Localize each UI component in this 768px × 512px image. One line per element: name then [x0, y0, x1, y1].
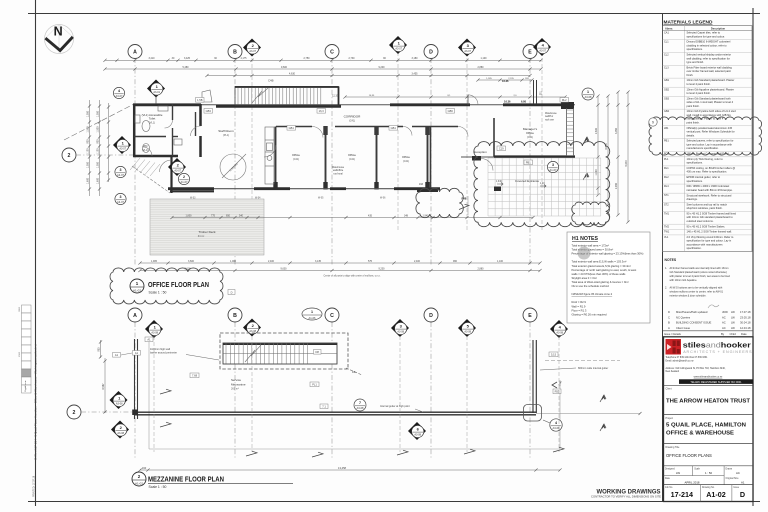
- section marker toilet top: [147, 80, 165, 98]
- svg-text:Drawn: Drawn: [726, 467, 733, 470]
- svg-text:AC: AC: [722, 326, 726, 330]
- svg-text:Total exterior glazed area E,S: Total exterior glazed area E,S,W glazing…: [572, 264, 631, 268]
- svg-text:specifications.: specifications.: [687, 47, 704, 51]
- svg-text:1: 1: [311, 310, 313, 314]
- svg-text:10mm Gib Aqualine plasterboard: 10mm Gib Aqualine plasterboard. Plaster: [687, 87, 734, 91]
- svg-text:window mullions center to cent: window mullions center to center, refer …: [670, 291, 724, 294]
- svg-text:3,180: 3,180: [412, 57, 419, 60]
- svg-text:1,550: 1,550: [97, 110, 100, 117]
- svg-text:2: 2: [68, 153, 71, 159]
- section arrow A: [583, 137, 589, 144]
- svg-text:Selected pavers, refer to spec: Selected pavers, refer to specification …: [687, 139, 734, 143]
- wall: toilet block lower stub: [170, 157, 214, 193]
- svg-text:specifications for type and co: specifications for type and colour.: [687, 34, 726, 38]
- svg-text:Drawing Title: Drawing Title: [666, 446, 680, 449]
- svg-text:2,646: 2,646: [595, 127, 598, 134]
- svg-text:D: D: [740, 490, 745, 499]
- svg-text:A3-01: A3-01: [153, 91, 160, 94]
- svg-text:9,200: 9,200: [379, 66, 386, 69]
- revision cloud legend: [649, 117, 762, 155]
- svg-text:Selected Carpet tiles, refer t: Selected Carpet tiles, refer to: [687, 31, 721, 35]
- svg-text:1,600: 1,600: [87, 177, 90, 184]
- svg-text:1: 1: [587, 90, 589, 94]
- svg-text:8,587: 8,587: [102, 383, 105, 390]
- svg-text:1,100: 1,100: [97, 148, 100, 155]
- svg-text:N: N: [54, 24, 63, 38]
- grid bubble C: [325, 45, 339, 59]
- svg-text:OFFICE FLOOR PLANS: OFFICE FLOOR PLANS: [666, 453, 712, 458]
- svg-text:90 x 45 H1.2 SG8 Timber Stakes: 90 x 45 H1.2 SG8 Timber Stakes.: [687, 224, 726, 228]
- svg-text:5,480: 5,480: [183, 66, 190, 69]
- grid bubble D: [424, 45, 438, 59]
- section marker 2: [243, 319, 261, 337]
- svg-text:3,410: 3,410: [149, 57, 156, 60]
- section marker mezz left 1: [110, 391, 128, 409]
- svg-text:cladding in selected colour,: cladding in selected colour, refer to: [687, 43, 728, 47]
- dimension row deck: [172, 217, 533, 219]
- svg-text:Wall = R1.9: Wall = R1.9: [572, 304, 586, 308]
- dashed diagonal at toilet lower: [132, 166, 170, 193]
- svg-text:AC: AC: [736, 471, 740, 475]
- svg-text:GB1: GB1: [664, 79, 670, 82]
- svg-text:2,880: 2,880: [478, 66, 485, 69]
- svg-text:2,900: 2,900: [615, 182, 618, 189]
- wall: reception west: [430, 127, 432, 189]
- entrance door block: [472, 156, 481, 161]
- svg-text:900: 900: [87, 139, 90, 144]
- svg-text:sides of H1.1 stud wall, Plast: sides of H1.1 stud wall, Plaster to leve…: [687, 100, 734, 104]
- svg-text:vertical post. Refer Windows S: vertical post. Refer Windows Schedule fo…: [687, 130, 735, 134]
- svg-text:Total exterior glazed area = 3: Total exterior glazed area = 30.8m²: [572, 248, 614, 252]
- svg-text:W-06: W-06: [380, 198, 386, 200]
- svg-text:Ok to use the schedule method: Ok to use the schedule method: [572, 284, 610, 288]
- section marker 3: [458, 39, 476, 57]
- svg-text:NOTES: NOTES: [665, 258, 677, 262]
- svg-text:BUILDING CONSENT ISSUE: BUILDING CONSENT ISSUE: [676, 321, 712, 325]
- svg-text:Scale: Scale: [694, 468, 700, 470]
- grid bubble D: [424, 308, 438, 322]
- svg-text:VL1: VL1: [664, 236, 669, 239]
- svg-text:R48: R48: [462, 197, 467, 201]
- section marker toilet lower: [168, 158, 186, 176]
- stair dashes below: [346, 368, 362, 375]
- svg-text:PL1: PL1: [664, 158, 669, 161]
- dimension row office top 2: [105, 68, 541, 70]
- svg-text:LW: LW: [731, 310, 735, 314]
- svg-text:RL2: RL2: [664, 176, 669, 179]
- small labels mezz left: [113, 353, 121, 358]
- date row: [664, 475, 725, 477]
- door arcs offices: [264, 127, 468, 158]
- svg-text:775: 775: [211, 214, 216, 217]
- svg-text:Designed: Designed: [665, 468, 675, 470]
- grid bubble A: [128, 45, 142, 59]
- gutter dashed lines right: [545, 360, 620, 362]
- svg-text:PB1: PB1: [664, 140, 669, 143]
- dim col mezz left 2: [100, 340, 102, 358]
- mezzanine roof outline: [149, 339, 560, 449]
- timber deck: [150, 199, 264, 255]
- svg-text:3,425: 3,425: [184, 57, 191, 60]
- svg-text:Mezzanine: Mezzanine: [231, 382, 246, 386]
- svg-text:Office: Office: [292, 153, 300, 157]
- svg-text:4,175: 4,175: [241, 57, 248, 60]
- grid bubble 2: [62, 148, 76, 162]
- dim col mezz left 1: [104, 358, 106, 413]
- svg-text:AC: AC: [722, 321, 726, 325]
- svg-text:A1-07: A1-07: [181, 180, 188, 184]
- warehouse wall stub above: [534, 80, 537, 104]
- svg-text:RL1: RL1: [664, 167, 669, 170]
- oval tag 1: [302, 308, 322, 320]
- cloud tag 9: [649, 118, 657, 126]
- svg-text:A3-07: A3-07: [249, 50, 256, 53]
- svg-text:drawings.: drawings.: [687, 197, 698, 201]
- svg-text:C:\Revit\17-214 - 5 Quail Plac: C:\Revit\17-214 - 5 Quail Place Hamilton…: [34, 344, 38, 460]
- H1 notes box: [567, 232, 650, 323]
- svg-text:9,200: 9,200: [379, 267, 386, 270]
- svg-text:Abrev.: Abrev.: [665, 26, 673, 30]
- grid bubble B: [228, 308, 242, 322]
- grid bubble E: [523, 308, 537, 322]
- svg-text:LB1: LB1: [664, 127, 669, 130]
- section marker 2: [243, 39, 261, 57]
- svg-text:2,400: 2,400: [268, 260, 275, 263]
- svg-text:Telephone 07 839 1244 Fa: Telephone 07 839 1244 Fax 07 839 3331: [666, 357, 709, 359]
- tag covered entrance: [547, 161, 558, 172]
- svg-text:A1-02: A1-02: [133, 289, 141, 293]
- svg-text:A3-07: A3-07: [119, 148, 126, 151]
- svg-text:A3-08: A3-08: [397, 331, 404, 334]
- svg-text:ST2: ST2: [664, 203, 669, 206]
- dimension row office top 1: [105, 59, 541, 61]
- svg-text:2,400: 2,400: [414, 260, 421, 263]
- svg-text:(VL1): (VL1): [142, 149, 148, 152]
- svg-text:5 QUAIL PLACE, HAMILTON: 5 QUAIL PLACE, HAMILTON: [666, 423, 746, 429]
- svg-text:D: D: [668, 310, 670, 314]
- svg-text:9,600: 9,600: [281, 66, 288, 69]
- mezzanine stair: [223, 343, 337, 364]
- svg-text:Staff Room: Staff Room: [218, 129, 234, 133]
- drawing title section: [664, 442, 754, 444]
- dimension row manager top: [478, 79, 532, 81]
- svg-text:Description: Description: [711, 26, 726, 30]
- svg-text:LW: LW: [676, 471, 680, 475]
- svg-text:Skylight area 0 = 0m²: Skylight area 0 = 0m²: [572, 276, 598, 280]
- svg-text:NC Queries: NC Queries: [676, 315, 691, 319]
- svg-text:A1-02: A1-02: [135, 482, 143, 486]
- section marker 1: [389, 36, 407, 54]
- svg-text:Brivis Fiber board exterior wa: Brivis Fiber board exterior wall claddin…: [687, 65, 733, 69]
- office plan: section cut dashed lines: [251, 52, 253, 230]
- svg-text:PL1: PL1: [312, 382, 317, 386]
- wall: toilet interior: [134, 104, 196, 156]
- svg-text:193: 193: [419, 183, 424, 186]
- svg-text:details.: details.: [687, 133, 695, 137]
- section marker mezz 6: [408, 422, 426, 440]
- svg-text:Total exterior wall area E,S,W: Total exterior wall area E,S,W walls = 1…: [572, 260, 627, 264]
- svg-text:specification for type and col: specification for type and colour. Lay i…: [687, 239, 732, 243]
- steps hatch left of toilet block: [130, 158, 160, 176]
- svg-text:Office: Office: [348, 153, 356, 157]
- section arrow A: [583, 173, 589, 180]
- svg-text:RL4: RL4: [664, 185, 669, 188]
- svg-text:Digital Issue: Digital Issue: [24, 380, 27, 392]
- svg-text:CORRIDOR: CORRIDOR: [344, 115, 362, 119]
- svg-text:(C41): (C41): [403, 160, 409, 163]
- svg-text:Chkd: Chkd: [730, 332, 737, 336]
- covered entrance paving grid: [488, 158, 601, 216]
- wall base block mezz west: [132, 410, 137, 416]
- svg-text:ARCHITECTS + ENGINEERS: ARCHITECTS + ENGINEERS: [683, 350, 752, 354]
- svg-text:finish.: finish.: [687, 73, 694, 77]
- svg-text:roof seal: roof seal: [333, 172, 343, 175]
- svg-text:140 x 45 H1.2 SG8 Timber frame: 140 x 45 H1.2 SG8 Timber framed wall.: [687, 230, 733, 234]
- svg-text:3: 3: [120, 195, 122, 199]
- svg-text:walls = 23.67%(less than 30%): walls = 23.67%(less than 30%) of these w…: [572, 272, 627, 276]
- svg-text:paint finish.: paint finish.: [687, 120, 700, 124]
- svg-text:with 10mm Gib Aqualine.: with 10mm Gib Aqualine.: [670, 279, 698, 282]
- kitchenette bench staff room: [265, 127, 274, 184]
- svg-text:3,050: 3,050: [615, 127, 618, 134]
- svg-text:10mm ply T&G flooring, refer t: 10mm ply T&G flooring, refer to: [687, 157, 724, 161]
- corner detail highlight: [524, 405, 542, 422]
- svg-text:A1-02: A1-02: [706, 490, 726, 499]
- roof edge line continuing east: [536, 413, 640, 415]
- materials legend table: [663, 26, 753, 252]
- svg-text:All timber framed walls are in: All timber framed walls are internally l…: [670, 267, 729, 270]
- svg-text:1 : 50: 1 : 50: [705, 471, 712, 475]
- svg-text:WC: WC: [143, 144, 148, 148]
- tag mezz 7: [354, 399, 366, 411]
- svg-text:435: 435: [368, 214, 373, 217]
- svg-text:PB1: PB1: [526, 160, 531, 164]
- dimension row office top 3: [207, 75, 530, 77]
- svg-text:Client Issue: Client Issue: [676, 326, 691, 330]
- svg-text:1.: 1.: [665, 267, 667, 270]
- svg-text:90 x 45 H1.2 SG8 Timber framed: 90 x 45 H1.2 SG8 Timber framed wall line…: [687, 211, 737, 215]
- svg-text:(C41): (C41): [349, 158, 355, 161]
- svg-text:A3-08: A3-08: [116, 403, 123, 406]
- svg-text:(C41): (C41): [293, 158, 299, 161]
- svg-text:1,600: 1,600: [97, 177, 100, 184]
- section arrow A mezz: [600, 424, 606, 431]
- svg-text:OFFICE FLOOR PLAN: OFFICE FLOOR PLAN: [148, 282, 209, 289]
- door arc manager top: [468, 95, 478, 105]
- svg-text:Original Size: Original Size: [726, 477, 740, 480]
- dim col office left 2: [99, 100, 101, 196]
- dim col office left 3: [108, 103, 110, 182]
- svg-text:1,550: 1,550: [97, 161, 100, 168]
- svg-text:RL2: RL2: [562, 98, 567, 102]
- svg-text:Reception: Reception: [473, 150, 487, 154]
- grid bubble C: [325, 308, 339, 322]
- tag corner detail: [550, 419, 562, 431]
- svg-text:Toilet: Toilet: [149, 117, 156, 121]
- svg-text:10mm Gib Standard plasterboard: 10mm Gib Standard plasterboard. Plaster: [687, 78, 735, 82]
- svg-text:Service: Service: [231, 378, 241, 382]
- svg-text:Scale 1 : 50: Scale 1 : 50: [149, 485, 167, 489]
- svg-text:C: C: [330, 49, 334, 55]
- svg-text:A: A: [668, 326, 670, 330]
- svg-text:E: E: [528, 49, 532, 55]
- svg-text:A: A: [602, 424, 605, 429]
- grid bubble 2: [67, 405, 81, 419]
- svg-text:GB1: GB1: [289, 126, 295, 130]
- svg-text:GB3: GB3: [664, 97, 670, 100]
- revision table: [663, 305, 754, 336]
- svg-text:LW: LW: [731, 315, 735, 319]
- svg-text:A1: A1: [115, 353, 119, 357]
- grid bubble B: [228, 45, 242, 59]
- svg-text:1,100: 1,100: [481, 57, 488, 60]
- office plan: vertical grid lines A-E: [134, 58, 136, 266]
- svg-text:A3-07: A3-07: [464, 50, 471, 53]
- roof slope arrows: [160, 422, 171, 427]
- wall: manager south: [461, 156, 575, 158]
- svg-text:Office: Office: [526, 131, 534, 135]
- svg-text:900: 900: [97, 139, 100, 144]
- svg-text:C: C: [668, 315, 670, 319]
- svg-text:D: D: [231, 290, 233, 294]
- mezzanine west wall: [135, 339, 138, 419]
- entrance misc arrows: [497, 183, 546, 188]
- svg-text:stilesandhooker: stilesandhooker: [683, 340, 751, 349]
- svg-text:2,750: 2,750: [304, 57, 311, 60]
- svg-text:New Zealand: New Zealand: [666, 371, 680, 373]
- dim col office left 1: [89, 100, 91, 196]
- wall: office bottom exterior (south): [168, 188, 440, 190]
- svg-text:to level 4 paint finish.: to level 4 paint finish.: [687, 82, 712, 86]
- svg-text:A3-08: A3-08: [151, 332, 158, 335]
- svg-text:wall, install in accordance wi: wall, install in accordance with GIB fir…: [687, 113, 732, 117]
- svg-text:9,600: 9,600: [281, 267, 288, 270]
- svg-text:(C41): (C41): [527, 136, 533, 139]
- svg-text:TM1: TM1: [664, 212, 670, 215]
- svg-text:A1: A1: [135, 351, 139, 355]
- svg-text:540: 540: [239, 214, 244, 217]
- mezzanine stair dashed enclosure: [220, 333, 348, 369]
- svg-text:23.05.18: 23.05.18: [740, 315, 751, 319]
- dimension row office bottom 2: [140, 270, 540, 272]
- svg-text:type and finish.: type and finish.: [687, 60, 705, 64]
- radius circle staff room: [220, 154, 246, 180]
- svg-text:A3-08: A3-08: [117, 432, 124, 435]
- wall: manager/reception divider: [493, 118, 495, 157]
- svg-text:1,550: 1,550: [87, 110, 90, 117]
- svg-text:THE ARROW HEATON TRUST: THE ARROW HEATON TRUST: [666, 398, 751, 404]
- section marker 4: [533, 38, 551, 56]
- svg-text:ST1: ST1: [664, 194, 669, 197]
- project section: [664, 414, 754, 416]
- svg-text:2.0 Vinyl flooring coved 130mm: 2.0 Vinyl flooring coved 130mm. Refer to: [687, 235, 734, 239]
- svg-text:2: 2: [73, 410, 76, 416]
- svg-text:A3-08: A3-08: [464, 331, 471, 334]
- svg-text:400 crs max. Refer to specific: 400 crs max. Refer to specification.: [687, 170, 728, 174]
- svg-text:960: 960: [453, 260, 458, 263]
- svg-text:www.stilesandhooker.co.nz: www.stilesandhooker.co.nz: [694, 375, 724, 378]
- section marker 3: [391, 319, 409, 337]
- dim col office right 1: [597, 96, 599, 195]
- svg-text:C: C: [330, 313, 334, 319]
- mezzanine floor edge (south): [135, 412, 536, 415]
- svg-text:Roof = R2.9: Roof = R2.9: [572, 300, 587, 304]
- svg-text:CL1: CL1: [664, 41, 669, 44]
- svg-text:1,905: 1,905: [151, 260, 158, 263]
- svg-text:A3-08: A3-08: [357, 406, 364, 410]
- svg-text:specifications.: specifications.: [687, 161, 704, 165]
- svg-text:650: 650: [226, 214, 231, 217]
- svg-text:16,3: 16,3: [319, 109, 325, 113]
- svg-text:A3-07: A3-07: [116, 94, 123, 98]
- svg-text:GB4: GB4: [664, 110, 670, 113]
- section marker 4: [550, 320, 568, 338]
- svg-text:type and colour. Lay in accord: type and colour. Lay in accordance with: [687, 142, 733, 146]
- wall corner block NE: [561, 102, 574, 109]
- svg-text:1,500: 1,500: [97, 126, 100, 133]
- telarc black bar: [679, 379, 753, 384]
- window ladder east wall: [567, 108, 574, 156]
- svg-text:10mm Gib Standard plasterboard: 10mm Gib Standard plasterboard both: [687, 96, 732, 100]
- left margin scale bar: [22, 305, 32, 393]
- svg-text:Total area of West-sited glazi: Total area of West-sited glazing & louvr…: [572, 280, 629, 284]
- svg-text:7.1: 7.1: [322, 404, 326, 408]
- svg-text:with 10mm Gib standard plaster: with 10mm Gib standard plasterboard to: [687, 215, 734, 219]
- svg-text:B: B: [668, 321, 670, 325]
- svg-text:1,595: 1,595: [486, 78, 492, 80]
- right column divider: [662, 14, 664, 502]
- wall: toilet block left exterior: [133, 104, 201, 157]
- door arc entrance: [481, 159, 493, 171]
- section arrow A mezz: [600, 395, 606, 402]
- svg-text:accordance with manufacturers: accordance with manufacturers: [687, 242, 724, 246]
- svg-text:348: 348: [404, 214, 409, 217]
- svg-text:TW1: TW1: [664, 231, 670, 234]
- svg-text:7.68: 7.68: [192, 373, 198, 377]
- svg-text:NZS4218 figure 05 climate zone: NZS4218 figure 05 climate zone 2: [572, 292, 613, 296]
- svg-text:GB2: GB2: [664, 88, 670, 91]
- svg-text:263 m²: 263 m²: [231, 388, 239, 391]
- svg-text:Dimond DIBB10 6-WEIGHT colorst: Dimond DIBB10 6-WEIGHT colorsteel: [687, 40, 731, 44]
- svg-text:Structural steelwork. Refer to: Structural steelwork. Refer to structura…: [687, 193, 732, 197]
- svg-text:1500: 1500: [19, 351, 21, 357]
- svg-text:30.04.18: 30.04.18: [740, 321, 751, 325]
- svg-text:Drawing No.: Drawing No.: [702, 486, 715, 489]
- svg-text:C19: C19: [499, 146, 504, 150]
- svg-text:Misc/Pavers/Path updated: Misc/Pavers/Path updated: [676, 310, 708, 314]
- svg-text:specification.: specification.: [687, 246, 702, 250]
- shrub cloud 2: [572, 202, 610, 225]
- svg-text:manufacturers specification.: manufacturers specification.: [687, 146, 720, 150]
- north arrow: [45, 24, 74, 53]
- svg-text:2,195: 2,195: [508, 78, 514, 80]
- svg-text:2,880: 2,880: [478, 267, 485, 270]
- svg-text:4: 4: [118, 89, 120, 93]
- notes text: [665, 267, 731, 298]
- svg-text:1,800: 1,800: [186, 214, 193, 217]
- svg-text:Address: 314 Collingwood St, P: Address: 314 Collingwood St, PO Box 718,…: [666, 367, 726, 370]
- svg-text:Steel columns and top rail to: Steel columns and top rail to match: [687, 202, 728, 206]
- svg-text:wall/Pur: wall/Pur: [545, 115, 553, 118]
- office floor plan title: [130, 279, 209, 295]
- svg-text:exterior window & door schedu: exterior window & door schedule.: [670, 295, 707, 298]
- svg-text:A3-07: A3-07: [539, 50, 546, 53]
- svg-text:1,600: 1,600: [595, 169, 598, 176]
- svg-text:paint finish.: paint finish.: [687, 104, 700, 108]
- svg-text:(C41): (C41): [349, 120, 355, 123]
- svg-text:575: 575: [368, 260, 373, 263]
- svg-text:(VL1): (VL1): [149, 120, 155, 124]
